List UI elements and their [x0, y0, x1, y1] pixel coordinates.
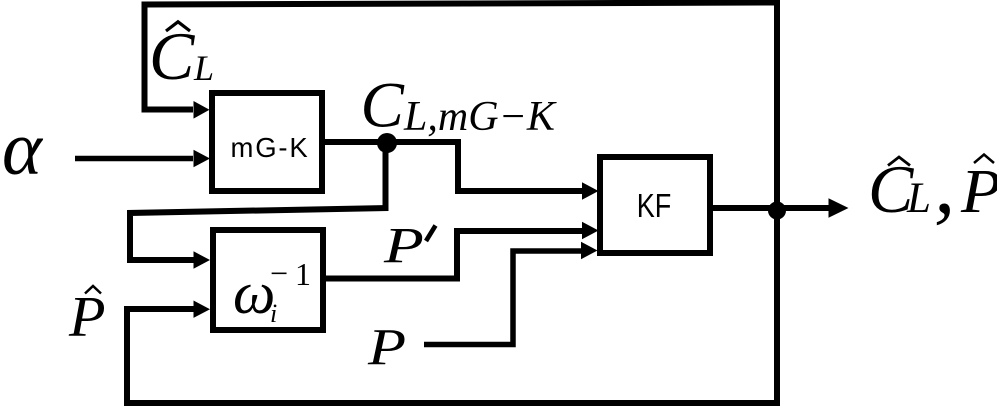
svg-text:L: L: [906, 175, 931, 222]
svg-text:α: α: [2, 107, 44, 191]
svg-text:C: C: [361, 70, 405, 142]
svg-text:KF: KF: [637, 189, 672, 225]
svg-text:P: P: [68, 285, 106, 348]
svg-text:−: −: [268, 255, 290, 291]
svg-text:P: P: [367, 319, 406, 376]
svg-text:L: L: [193, 48, 214, 88]
svg-text:L,mG−K: L,mG−K: [403, 94, 557, 140]
svg-text:1: 1: [295, 256, 311, 292]
svg-text:P: P: [383, 217, 424, 274]
svg-text:P: P: [960, 155, 997, 225]
svg-text:,: ,: [934, 137, 955, 231]
svg-text:mG-K: mG-K: [231, 132, 310, 163]
svg-text:i: i: [270, 299, 277, 328]
